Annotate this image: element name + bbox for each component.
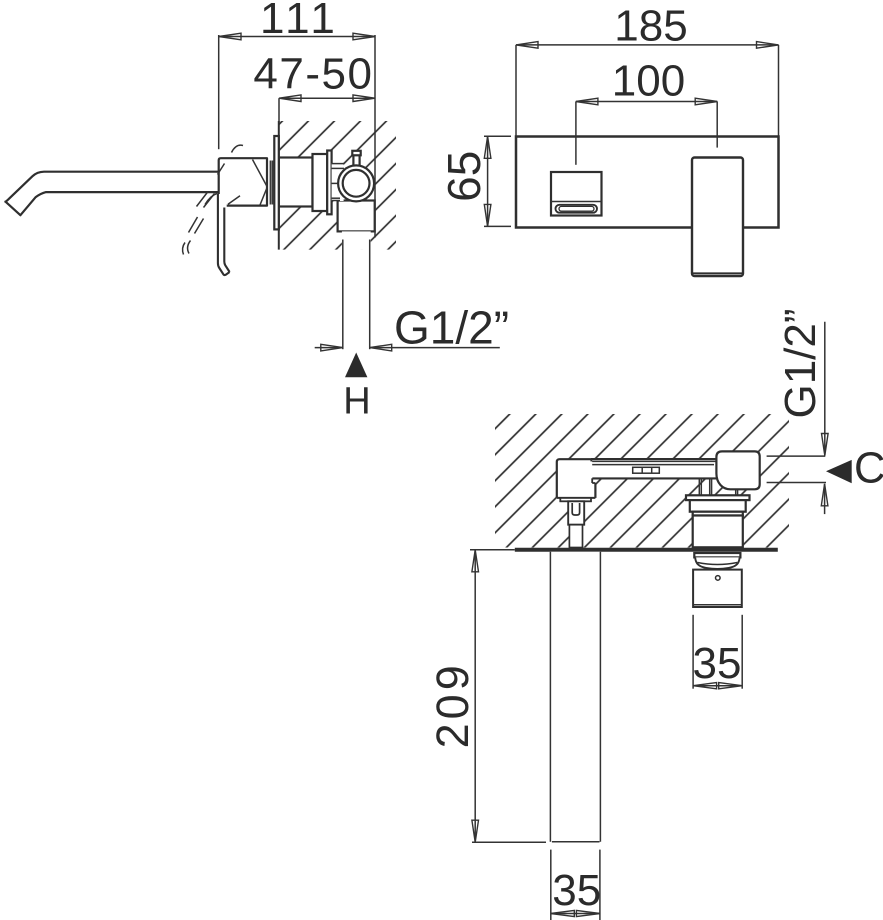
wall hatch section (plan) bbox=[495, 414, 789, 548]
svg-text:111: 111 bbox=[260, 0, 339, 43]
svg-text:100: 100 bbox=[612, 57, 685, 106]
escutcheon flange stack (plan) bbox=[686, 495, 750, 547]
dimension 185 bbox=[516, 2, 779, 137]
C dimension bbox=[767, 445, 883, 515]
valve stems to flange bbox=[699, 479, 737, 496]
wall hatch section bbox=[279, 121, 396, 250]
svg-text:35: 35 bbox=[693, 639, 742, 688]
handle front tilt lines bbox=[228, 160, 267, 206]
svg-text:65: 65 bbox=[438, 151, 490, 202]
dimension 100 bbox=[576, 57, 717, 165]
valve ball inner circle bbox=[343, 170, 370, 197]
cartridge ring 2 bbox=[327, 151, 331, 215]
svg-text:185: 185 bbox=[614, 2, 687, 51]
spout outlet block bbox=[551, 172, 602, 216]
wall face line (plan) bbox=[515, 548, 778, 552]
cartridge ring 1 bbox=[313, 154, 328, 211]
wall face line bbox=[278, 121, 280, 250]
dimension 209 (vertical) bbox=[427, 550, 546, 842]
link block between ring and valve bbox=[332, 163, 344, 201]
dimension 35 handle bbox=[693, 615, 743, 689]
dimension 111 bbox=[219, 0, 375, 237]
handle body block bbox=[219, 158, 267, 205]
escutcheon plate (side) bbox=[274, 136, 279, 229]
handle bar (front) bbox=[692, 158, 743, 277]
G1/2" leader (side view) bbox=[315, 302, 509, 354]
spout (side view) bbox=[5, 172, 218, 216]
svg-text:47-50: 47-50 bbox=[253, 49, 373, 98]
H marker triangle bbox=[345, 353, 367, 378]
base pedestal bbox=[560, 498, 591, 501]
handle swing marks bbox=[183, 145, 243, 254]
svg-text:C: C bbox=[854, 445, 883, 493]
handle (plan, below wall) bbox=[693, 553, 742, 607]
dimension 35 spout (bottom) bbox=[551, 850, 601, 920]
spout arm (plan) bbox=[591, 459, 718, 478]
svg-text:209: 209 bbox=[427, 661, 478, 748]
spout base stem bbox=[568, 501, 584, 547]
valve body box below cartridge bbox=[338, 201, 375, 232]
dark stem gap between handle body and plate bbox=[271, 161, 273, 205]
dimension 47-50 bbox=[253, 49, 375, 122]
handle lever (side) bbox=[218, 194, 230, 276]
svg-text:G1/2”: G1/2” bbox=[394, 302, 509, 354]
spout base block (plan, left) bbox=[557, 459, 596, 501]
dimension 65 (vertical) bbox=[438, 136, 511, 226]
spout (plan, below wall) bbox=[550, 552, 600, 842]
svg-text:H: H bbox=[343, 381, 370, 423]
supply pipe below valve bbox=[342, 231, 371, 349]
valve block (plan, right) with neck curve bbox=[716, 451, 759, 489]
trim plate bbox=[516, 137, 779, 228]
svg-text:35: 35 bbox=[552, 866, 601, 915]
svg-text:G1/2”: G1/2” bbox=[776, 308, 825, 418]
valve ball outer circle bbox=[338, 165, 374, 201]
G1/2" vertical dimension (plan) bbox=[776, 308, 828, 455]
cartridge cylinder in wall bbox=[279, 158, 313, 207]
inlet nipple on top of valve bbox=[352, 151, 360, 166]
